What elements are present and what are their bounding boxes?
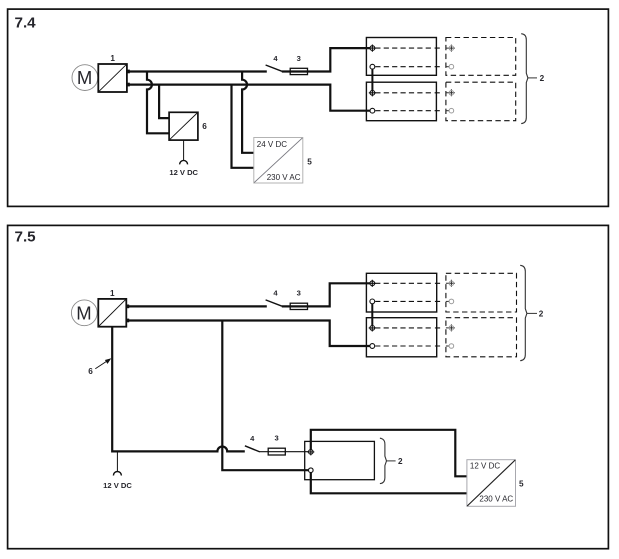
wire: stub to 12VDC socket (7.5) — [116, 451, 118, 471]
wire: drop from bottom bus to single battery minus (7.5) — [222, 321, 308, 471]
wire: battery - down and to inverter lower input (7.5) — [311, 473, 467, 494]
single battery box (7.5) — [305, 441, 375, 479]
svg-text:6: 6 — [202, 122, 207, 131]
fuse 3 (7.4) — [290, 68, 307, 74]
inverter/charger box 1 (7.4) — [98, 64, 127, 92]
svg-text:230 V AC: 230 V AC — [479, 495, 513, 504]
svg-text:3: 3 — [297, 289, 301, 298]
terminal + single battery (7.5) — [307, 448, 314, 455]
wire: drop from top bus with hop over bottom bus, to box6 lower input (7.4) — [147, 71, 169, 134]
svg-text:7.4: 7.4 — [15, 14, 37, 31]
dashed row + lower (7.5) — [375, 327, 442, 329]
leader line to 2 (7.4) — [528, 77, 537, 79]
svg-text:230 V AC: 230 V AC — [267, 173, 301, 182]
terminal - upper battery (7.4) — [370, 64, 375, 69]
svg-text:2: 2 — [539, 309, 544, 318]
motor M (7.5) — [71, 300, 97, 326]
terminal + lower battery (7.5) — [369, 324, 376, 331]
terminal - lower battery (7.4) — [370, 108, 375, 113]
power supply box 5: 24VDC/230VAC (7.4) — [254, 138, 303, 184]
svg-text:3: 3 — [297, 54, 301, 63]
wire: switch through fuse to corner, up to battery + (7.4) — [282, 48, 370, 71]
wire: box1 bottom output to battery minus (7.5) — [126, 321, 370, 347]
svg-text:1: 1 — [110, 289, 115, 298]
inverter box 5: 12VDC/230VAC (7.5) — [467, 460, 516, 507]
wire: battery + up and around to inverter 12VDC input (7.5) — [311, 430, 467, 477]
dashed row - upper (7.5) — [375, 300, 442, 302]
optional battery box upper dashed (7.4) — [446, 38, 516, 76]
label 6 with arrow (7.5) — [88, 358, 111, 376]
wire: series link between batteries (7.5) — [371, 304, 373, 326]
connection nub box1 bottom output (7.4) — [127, 83, 130, 87]
battery box lower solid (7.5) — [366, 318, 436, 357]
dashed row + lower (7.4) — [375, 92, 441, 94]
optional terminal - upper (7.5) — [446, 299, 454, 304]
wire: drop from top bus with hop, to power supply 24VDC input (7.4) — [242, 71, 254, 153]
brace bracket (7.4) — [521, 34, 528, 124]
brace bracket batteries (7.5) — [520, 265, 527, 360]
optional terminal + lower (7.4) — [446, 89, 455, 96]
svg-text:5: 5 — [307, 158, 312, 167]
svg-text:24 V DC: 24 V DC — [257, 140, 287, 149]
svg-text:5: 5 — [519, 479, 524, 488]
dashed row - lower (7.4) — [375, 110, 441, 112]
panel frame 7.4 — [8, 9, 609, 206]
switch 4 blade upper (7.5) — [266, 300, 282, 306]
terminal - upper battery (7.5) — [370, 299, 375, 304]
terminal + upper battery (7.4) — [369, 45, 376, 52]
wire: box1 top output to switch (7.5) — [126, 305, 266, 307]
connection nub box1 top output (7.4) — [127, 70, 130, 74]
wire: drop from bottom bus to power supply lower input (7.4) — [232, 84, 254, 168]
battery box upper solid (7.5) — [366, 273, 436, 312]
dashed row + upper (7.4) — [375, 47, 441, 49]
svg-text:M: M — [76, 302, 91, 323]
leader line to 2 single battery (7.5) — [387, 460, 396, 462]
DC/DC converter box 6 (7.4) — [169, 112, 198, 140]
battery box upper solid (7.4) — [366, 38, 436, 76]
optional terminal - lower (7.4) — [446, 108, 454, 113]
terminal - single battery (7.5) — [309, 468, 314, 473]
12 V DC socket arc (7.4) — [180, 160, 188, 164]
svg-text:4: 4 — [250, 434, 255, 443]
wire: drop from bottom bus to box6 upper input (7.4) — [159, 84, 169, 119]
optional terminal - upper (7.4) — [446, 64, 454, 69]
wire: box1 top output to switch (7.4) — [127, 70, 267, 72]
optional terminal - lower (7.5) — [446, 344, 454, 349]
optional terminal + lower (7.5) — [446, 324, 455, 331]
wire: switch through fuse to corner, up to battery + (7.5) — [282, 283, 370, 306]
terminal + upper battery (7.5) — [369, 280, 376, 287]
svg-text:2: 2 — [398, 457, 403, 466]
connection nub box1 top output (7.5) — [126, 305, 129, 309]
wire: box1 bottom drop and lower bus with hop (7.5) — [112, 327, 245, 452]
battery box lower solid (7.4) — [366, 82, 436, 121]
optional terminal + upper (7.5) — [446, 280, 455, 287]
optional battery box lower dashed (7.5) — [446, 318, 517, 357]
wire: series link between batteries (7.4) — [371, 69, 373, 90]
dashed row - upper (7.4) — [375, 66, 441, 68]
12 V DC socket arc (7.5) — [113, 472, 121, 476]
dashed row - lower (7.5) — [375, 345, 442, 347]
inverter/charger box 1 (7.5) — [98, 299, 126, 327]
terminal + lower battery (7.4) — [369, 89, 376, 96]
switch 4 blade lower (7.5) — [245, 446, 260, 452]
svg-text:12 V DC: 12 V DC — [470, 462, 500, 471]
panel frame 7.5 — [8, 225, 609, 548]
fuse 3 upper (7.5) — [290, 303, 307, 309]
leader line to 2 batteries (7.5) — [527, 312, 537, 314]
switch 4 blade (7.4) — [266, 65, 282, 71]
fuse 3 lower (7.5) — [268, 448, 285, 455]
dashed row + upper (7.5) — [375, 282, 442, 284]
brace bracket single battery (7.5) — [380, 438, 387, 483]
svg-text:3: 3 — [274, 434, 278, 443]
svg-text:4: 4 — [273, 289, 278, 298]
connection nub box1 bottom output (7.5) — [126, 319, 129, 323]
svg-text:M: M — [77, 67, 92, 88]
svg-text:12 V DC: 12 V DC — [103, 481, 132, 490]
svg-text:4: 4 — [273, 54, 278, 63]
svg-text:12 V DC: 12 V DC — [169, 168, 198, 177]
optional battery box lower dashed (7.4) — [446, 82, 516, 121]
wire: box1 bottom output to battery minus (7.4) — [127, 85, 370, 111]
motor M (7.4) — [72, 65, 98, 91]
terminal - lower battery (7.5) — [370, 344, 375, 349]
svg-text:1: 1 — [110, 54, 115, 63]
svg-text:6: 6 — [88, 367, 93, 376]
wire: lower switch to battery + through fuse (7.5) — [260, 451, 309, 453]
svg-text:2: 2 — [540, 74, 545, 83]
wire: stub below box 6 (7.4) — [183, 140, 185, 160]
optional battery box upper dashed (7.5) — [446, 273, 517, 312]
optional terminal + upper (7.4) — [446, 45, 455, 52]
svg-text:7.5: 7.5 — [15, 229, 37, 246]
